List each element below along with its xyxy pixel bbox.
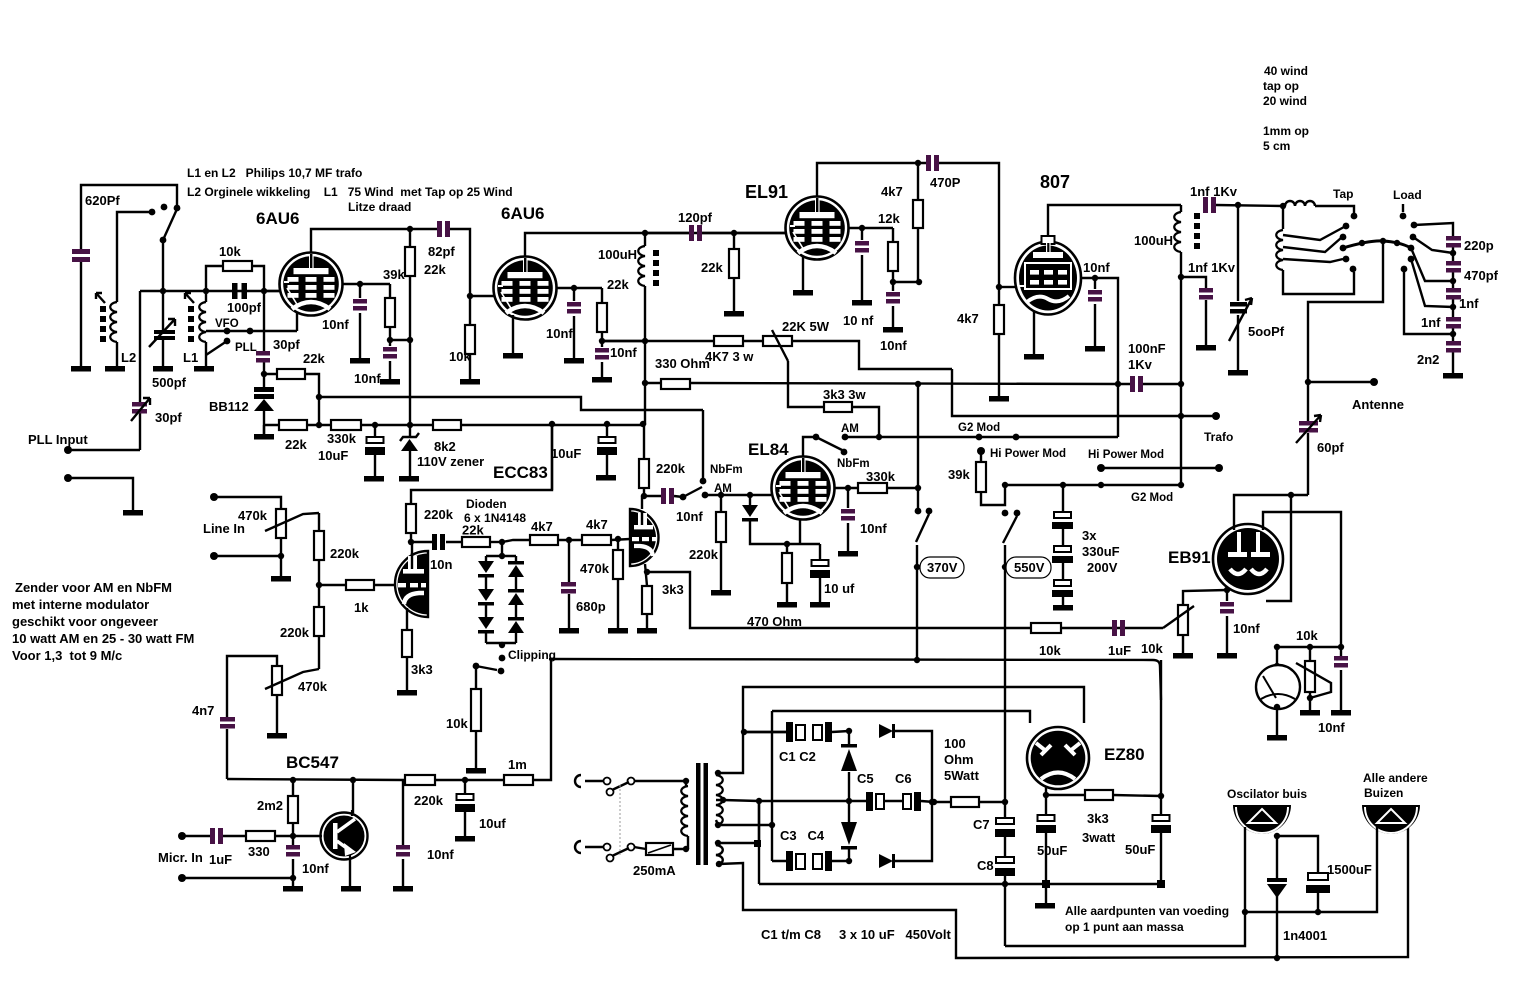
zener diode 110V	[409, 425, 411, 476]
ground	[466, 768, 486, 774]
capacitor 10nf EL84 plate	[847, 488, 849, 551]
resistor 220k div2	[314, 607, 324, 636]
svg-text:Ohm: Ohm	[944, 752, 974, 767]
svg-text:12k: 12k	[878, 211, 900, 226]
svg-text:100uH: 100uH	[598, 247, 637, 262]
svg-text:20 wind: 20 wind	[1263, 94, 1307, 108]
svg-text:2n2: 2n2	[1417, 352, 1439, 367]
svg-text:10nf: 10nf	[610, 345, 637, 360]
resistor	[288, 796, 298, 823]
label 370V oval	[920, 557, 964, 578]
junction	[756, 798, 762, 804]
wire	[686, 836, 688, 849]
junction	[387, 337, 393, 343]
svg-text:22k: 22k	[285, 437, 307, 452]
wire	[716, 845, 723, 865]
svg-text:10nf: 10nf	[880, 338, 907, 353]
wire	[1229, 298, 1252, 341]
svg-text:10k: 10k	[219, 244, 241, 259]
svg-text:500pf: 500pf	[152, 375, 187, 390]
junction	[716, 861, 722, 867]
wire 807 screen	[1081, 278, 1118, 437]
wire	[1283, 270, 1354, 294]
junction	[1274, 704, 1280, 710]
wire	[758, 801, 760, 843]
switch clipping	[473, 663, 480, 670]
transformer primary	[634, 780, 686, 782]
wire	[916, 545, 918, 660]
wire grid into tube	[264, 290, 280, 292]
capacitor 10nf EB91	[1226, 590, 1228, 653]
EB91 cathode	[1224, 587, 1230, 593]
resistor 4k7 a	[530, 535, 558, 545]
ground	[724, 311, 744, 317]
ground	[883, 327, 903, 333]
svg-text:5ooPf: 5ooPf	[1248, 324, 1285, 339]
wire AM row 437	[845, 436, 1118, 438]
switch AM/NbFm EL84	[813, 434, 820, 441]
svg-text:4n7: 4n7	[192, 703, 214, 718]
junction	[1288, 492, 1294, 498]
inductor 100uH 2	[1174, 212, 1181, 252]
wire	[1296, 415, 1321, 443]
resistor 4k7 plate EL91	[915, 160, 921, 166]
resistor 3k3 b	[642, 586, 652, 614]
ground	[1196, 345, 1216, 351]
resistor 39k HiPower	[977, 447, 985, 455]
junction	[566, 537, 572, 543]
ground	[341, 886, 361, 892]
resistor 220k divider top	[551, 424, 553, 490]
wire cathode to VFO switch	[296, 312, 298, 331]
wire 644 vertical through 220k	[643, 425, 645, 496]
svg-text:10uF: 10uF	[551, 446, 581, 461]
resistor 22k varicap	[264, 374, 319, 425]
svg-text:Load: Load	[1393, 188, 1422, 202]
ground	[194, 366, 214, 372]
inductor winding	[1276, 230, 1283, 270]
resistor 3k3 a	[402, 630, 412, 657]
svg-text:10nf: 10nf	[427, 847, 454, 862]
ground	[637, 628, 657, 634]
junction	[1274, 955, 1280, 961]
row C1 C2	[744, 731, 932, 802]
transistor BC547	[321, 810, 368, 860]
switch contact	[1351, 213, 1358, 220]
junction	[290, 875, 296, 881]
svg-text:10uf: 10uf	[479, 816, 506, 831]
wire	[771, 711, 773, 861]
svg-text:Hi Power Mod: Hi Power Mod	[990, 448, 1066, 460]
tube EB91	[1213, 524, 1283, 594]
svg-text:120pf: 120pf	[678, 210, 713, 225]
svg-text:40 wind: 40 wind	[1264, 64, 1308, 78]
capacitor 1500uF	[1308, 873, 1328, 880]
electrolytic capacitor	[455, 794, 475, 812]
switch G2 Mod pair	[976, 434, 983, 441]
junction	[278, 553, 284, 559]
svg-text:1nf 1Kv: 1nf 1Kv	[1188, 260, 1236, 275]
wire	[1118, 383, 1181, 385]
svg-text:4k7: 4k7	[957, 311, 979, 326]
svg-text:220k: 220k	[656, 461, 686, 476]
ground	[1085, 346, 1105, 352]
wire supply L to 220k	[411, 424, 552, 504]
capacitor 10nf 807	[1094, 278, 1096, 346]
resistor	[405, 247, 415, 276]
wire EL84 cathode	[787, 519, 820, 544]
wire	[1263, 512, 1341, 647]
svg-text:Litze draad: Litze draad	[348, 200, 411, 214]
node grid2	[467, 293, 473, 299]
resistor 220k div1	[318, 513, 320, 607]
svg-text:3k3 3w: 3k3 3w	[823, 387, 867, 402]
wire	[1004, 545, 1006, 802]
half tube others	[1362, 805, 1420, 834]
svg-text:470P: 470P	[930, 175, 961, 190]
svg-text:VFO: VFO	[215, 318, 239, 330]
junction	[1274, 663, 1280, 669]
capacitor 620Pf	[72, 249, 90, 262]
svg-text:NbFm: NbFm	[837, 458, 870, 470]
ground	[399, 476, 419, 482]
ground	[1267, 735, 1287, 741]
ground	[455, 836, 475, 842]
inductor winding	[199, 302, 206, 342]
clipping diode strings	[486, 542, 516, 647]
wire feedback row right	[1031, 627, 1061, 629]
svg-text:680p: 680p	[576, 599, 606, 614]
capacitor 1nf 1Kv lower	[1181, 277, 1206, 345]
wire	[612, 848, 629, 856]
wire	[1404, 237, 1453, 334]
wire mod row 341	[602, 341, 952, 369]
wire row 330 ohm 384	[645, 341, 1118, 425]
inductor 100uH	[642, 230, 648, 236]
junction	[408, 539, 414, 545]
wire	[214, 497, 281, 509]
mains plug top	[575, 775, 581, 787]
junction	[1307, 695, 1313, 701]
wire trafo row 416	[952, 369, 1216, 416]
svg-text:Voor 1,3 tot 9 M/c: Voor 1,3 tot 9 M/c	[12, 648, 122, 663]
wire	[1216, 205, 1283, 206]
switch contact	[499, 655, 506, 662]
junction	[683, 846, 689, 852]
terminal	[1212, 412, 1220, 420]
svg-text:82pf: 82pf	[428, 244, 455, 259]
svg-text:Zender voor AM en NbFM: Zender voor AM en NbFM	[15, 580, 172, 595]
tap switch contacts	[1343, 223, 1350, 230]
label 550V oval	[1006, 557, 1051, 578]
svg-text:Clipping: Clipping	[508, 648, 556, 662]
svg-text:EL84: EL84	[748, 440, 789, 459]
ground	[838, 551, 858, 557]
resistor 330 Ohm	[661, 379, 690, 389]
svg-text:10nf: 10nf	[1318, 720, 1345, 735]
wire cathode a	[406, 608, 408, 690]
row C3 C4	[772, 802, 932, 861]
wire	[205, 342, 207, 366]
svg-text:C8: C8	[977, 858, 994, 873]
svg-text:100pf: 100pf	[227, 300, 262, 315]
wire screen node to 644 vertical	[602, 340, 645, 342]
wire	[772, 330, 788, 361]
capacitor 10n input	[411, 541, 462, 543]
electrolytic 50uF right	[1160, 796, 1162, 884]
switch contact	[1411, 222, 1418, 229]
svg-text:10nf: 10nf	[354, 371, 381, 386]
wire	[644, 286, 646, 341]
wire anode b	[641, 496, 643, 509]
ground	[1443, 373, 1463, 379]
wire	[131, 398, 150, 421]
svg-text:807: 807	[1040, 172, 1070, 192]
resistor	[913, 200, 923, 228]
svg-text:470k: 470k	[580, 561, 610, 576]
svg-text:Buizen: Buizen	[1364, 786, 1403, 800]
capacitor 10nf under 39k	[389, 340, 391, 379]
ground	[564, 358, 584, 364]
resistor	[994, 305, 1004, 334]
wire EL91 cathode	[802, 256, 804, 290]
resistor 330k rail	[331, 420, 361, 430]
resistor	[888, 242, 898, 271]
wire 918 vertical	[915, 485, 921, 491]
osc tube wires	[1005, 827, 1245, 946]
switch Hi Power Mod 2	[1097, 464, 1105, 472]
resistor	[613, 550, 623, 579]
wire to 4k7s	[502, 539, 630, 542]
ground	[596, 475, 616, 481]
ground	[71, 366, 91, 372]
capacitor 470pf	[1446, 261, 1461, 266]
svg-text:Dioden: Dioden	[466, 497, 507, 511]
svg-text:6 x 1N4148: 6 x 1N4148	[464, 511, 526, 525]
capacitor 1nf 2	[1446, 317, 1461, 322]
svg-text:10n: 10n	[430, 557, 452, 572]
wire G2 mod row 485	[1002, 482, 1008, 488]
wire	[1276, 896, 1278, 958]
junction	[316, 422, 322, 428]
junction	[316, 394, 322, 400]
ground	[852, 300, 872, 306]
wire	[644, 496, 683, 497]
svg-text:3x: 3x	[1082, 528, 1097, 543]
switch NbFm/AM grid	[680, 494, 687, 501]
svg-text:220k: 220k	[330, 546, 360, 561]
wire	[702, 410, 704, 481]
wire	[214, 556, 281, 576]
wire	[1307, 433, 1309, 495]
wire	[999, 286, 1015, 288]
ground	[1331, 710, 1351, 716]
wire	[182, 877, 293, 879]
svg-text:200V: 200V	[1087, 560, 1118, 575]
svg-text:EL91: EL91	[745, 182, 788, 202]
svg-text:30pf: 30pf	[155, 410, 182, 425]
svg-text:50uF: 50uF	[1037, 843, 1067, 858]
junction	[914, 657, 920, 663]
collector row	[227, 659, 551, 780]
svg-text:ECC83: ECC83	[493, 463, 548, 482]
wire	[149, 319, 175, 347]
wire anode a	[411, 542, 413, 554]
tank coil vertical	[1282, 206, 1284, 229]
ground row 884	[1002, 881, 1008, 887]
capacitor 1uF row	[1112, 620, 1125, 636]
junction	[846, 728, 852, 734]
svg-text:1500uF: 1500uF	[1327, 862, 1372, 877]
wire	[227, 330, 250, 332]
HV bottom	[715, 822, 721, 828]
wire	[185, 293, 194, 303]
capacitor 4n7	[220, 717, 235, 722]
ground	[1217, 653, 1237, 659]
ground	[989, 396, 1009, 402]
diode 1n4001	[1267, 878, 1287, 882]
junction	[599, 338, 605, 344]
secondary HV	[715, 770, 721, 776]
capacitor 10nf 12k	[892, 282, 894, 327]
wire	[685, 781, 687, 786]
svg-text:geschikt voor ongeveer: geschikt voor ongeveer	[12, 614, 158, 629]
mic terminals	[178, 832, 186, 840]
variable capacitor 60pf	[1299, 421, 1318, 426]
wire	[981, 451, 1005, 505]
electrolytic 10uF 2	[606, 424, 608, 475]
load cap chain x=1453	[1414, 223, 1453, 373]
svg-text:EZ80: EZ80	[1104, 745, 1145, 764]
resistor 22k input	[462, 537, 490, 547]
switch contact	[842, 434, 849, 441]
wire cathode b to feedback row	[644, 569, 650, 575]
wire	[849, 801, 1005, 802]
svg-text:250mA: 250mA	[633, 863, 676, 878]
wire clipping row to PSU	[549, 659, 1161, 700]
capacitor 100pf	[232, 283, 247, 299]
wire	[719, 827, 1408, 958]
resistor 22k screen	[601, 288, 603, 341]
svg-text:39k: 39k	[948, 467, 970, 482]
junction	[718, 492, 724, 498]
inductor winding	[638, 246, 645, 286]
junction	[642, 380, 648, 386]
electrolytic 50uF left	[1045, 795, 1047, 884]
svg-text:Oscilator buis: Oscilator buis	[1227, 787, 1307, 801]
svg-text:330k: 330k	[327, 431, 357, 446]
wire	[744, 731, 787, 733]
capacitor 100nF 1Kv	[1115, 381, 1121, 387]
switch contact	[1400, 213, 1407, 220]
wire 807 grid	[996, 284, 1002, 290]
junction	[1235, 202, 1241, 208]
varicap BB112	[261, 371, 267, 377]
inductor L2	[110, 302, 117, 342]
resistor 8k2	[433, 420, 461, 430]
wire	[1285, 201, 1315, 206]
svg-text:10k: 10k	[449, 349, 471, 364]
svg-text:10nf: 10nf	[302, 861, 329, 876]
capacitor 470P	[918, 163, 999, 287]
wire	[68, 478, 133, 510]
resistor 3k3 EZ80	[1085, 790, 1113, 800]
svg-text:1nf: 1nf	[1459, 296, 1479, 311]
wire	[280, 538, 282, 556]
pot 10k meter	[1309, 647, 1311, 710]
svg-text:L1 en L2 Philips 10,7 MF tra: L1 en L2 Philips 10,7 MF trafo	[187, 166, 362, 180]
tube EL91	[786, 197, 849, 260]
tap leads	[1283, 227, 1344, 262]
wire grid bus EL84	[641, 493, 647, 499]
resistor	[471, 689, 481, 731]
junction	[845, 485, 851, 491]
band switch contacts	[149, 209, 156, 216]
antenna terminal	[1308, 381, 1374, 383]
resistor 330	[246, 831, 275, 841]
svg-text:Trafo: Trafo	[1204, 430, 1233, 444]
load selector leads	[1450, 250, 1456, 256]
svg-text:22k: 22k	[303, 351, 325, 366]
capacitor 1nf	[1446, 288, 1461, 293]
capacitor 10nf EL84 grid	[661, 488, 674, 504]
svg-text:met interne modulator: met interne modulator	[12, 597, 149, 612]
electrolytic capacitor	[365, 437, 385, 455]
vertical diodes	[848, 731, 850, 861]
wire	[1163, 606, 1194, 653]
svg-text:4k7: 4k7	[531, 519, 553, 534]
resistor 3k3 3w	[824, 402, 852, 412]
junction	[846, 858, 852, 864]
ground	[350, 358, 370, 364]
ground	[123, 510, 143, 516]
variable capacitor 5ooPf	[1237, 205, 1239, 370]
capacitor 30pf varicap feed	[263, 291, 265, 374]
svg-text:C7: C7	[973, 817, 990, 832]
wire	[1003, 516, 1017, 543]
collector wire	[352, 780, 354, 813]
VFO/PLL tap switch	[206, 330, 297, 332]
junction	[499, 553, 505, 559]
capacitor 10nf plate1	[359, 284, 361, 358]
resistor	[976, 462, 986, 492]
capacitor 10nf meter	[1340, 647, 1342, 710]
electrolytic capacitor	[1151, 815, 1171, 833]
svg-text:39k: 39k	[383, 267, 405, 282]
svg-text:330 Ohm: 330 Ohm	[655, 356, 710, 371]
wire wiper down to antenna	[1308, 241, 1383, 421]
wire switch lever to grid bus	[162, 240, 164, 291]
junction	[290, 833, 296, 839]
capacitor 10nf screen	[601, 341, 603, 377]
junction	[499, 539, 505, 545]
rheostat 22K 5W	[763, 336, 792, 346]
ground	[503, 353, 523, 359]
svg-text:L2 Orginele wikkeling L1: L2 Orginele wikkeling L1 75 Wind met Tap…	[187, 185, 513, 199]
resistor 4k7 807 grid	[998, 287, 1000, 396]
svg-text:22K 5W: 22K 5W	[782, 319, 830, 334]
capacitor 220p	[1446, 236, 1461, 241]
svg-text:370V: 370V	[927, 560, 958, 575]
diode EL84 grid	[750, 495, 787, 544]
svg-text:330k: 330k	[866, 469, 896, 484]
wire	[470, 295, 494, 297]
svg-text:C6: C6	[895, 771, 912, 786]
grid bus	[140, 290, 280, 292]
svg-text:10uF: 10uF	[318, 448, 348, 463]
svg-text:10nf: 10nf	[860, 521, 887, 536]
junction	[316, 582, 322, 588]
